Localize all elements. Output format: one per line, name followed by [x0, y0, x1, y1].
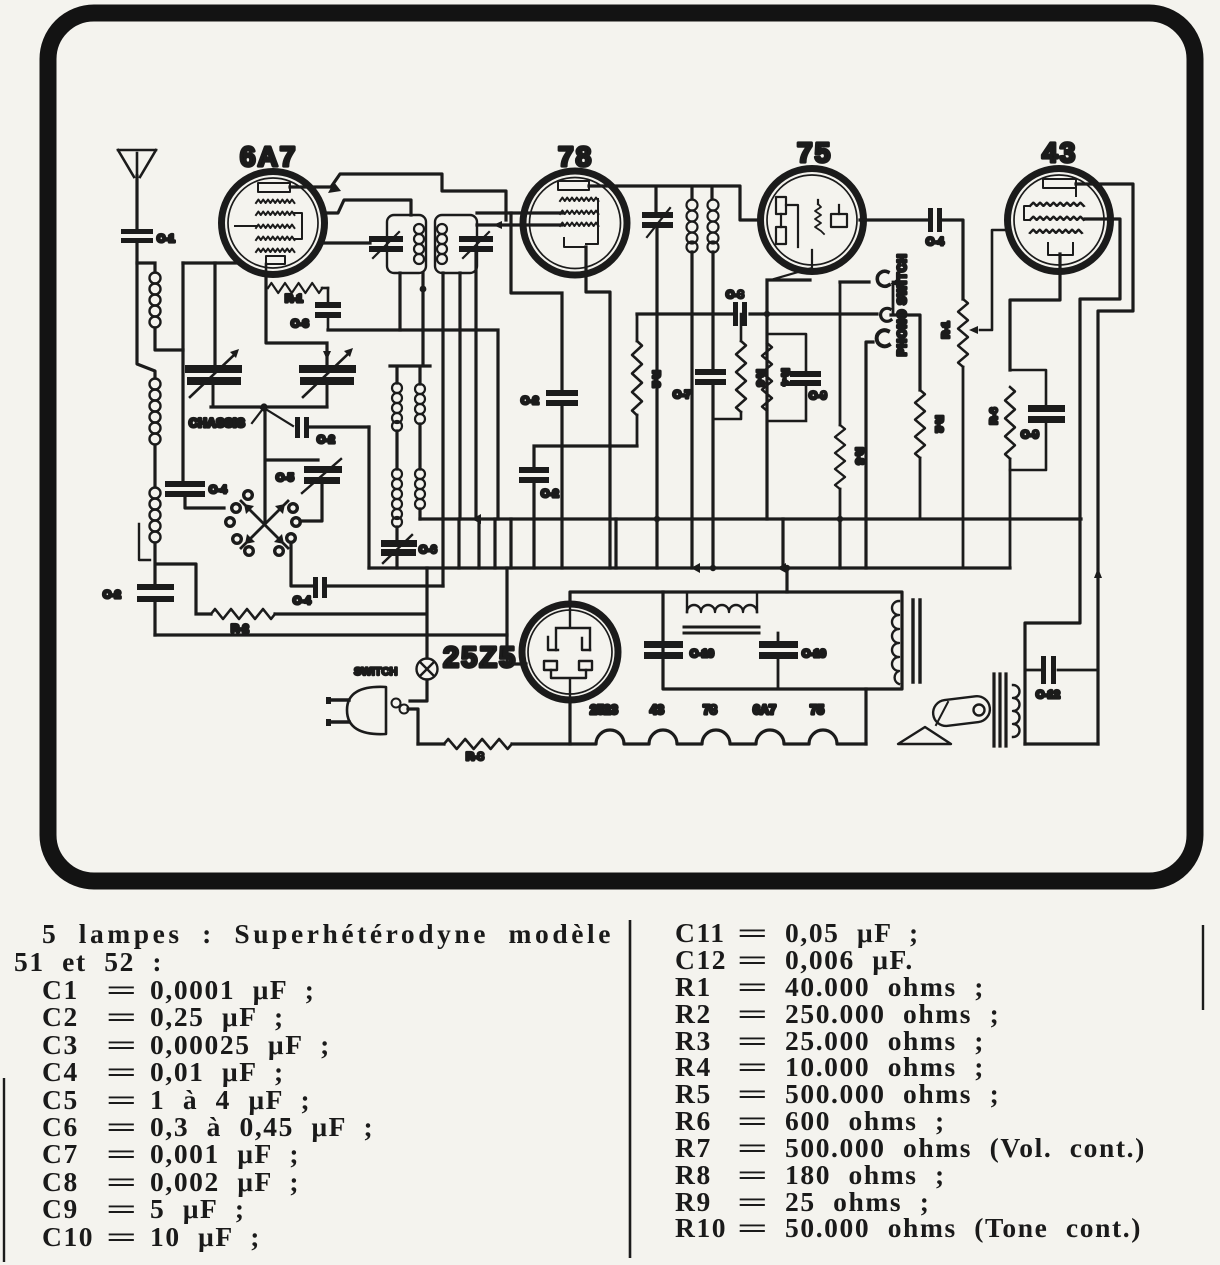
text right margin mark — [1202, 925, 1204, 1010]
variable capacitor IF1 secondary — [459, 232, 493, 258]
variable capacitor C6 — [381, 535, 437, 563]
wire 6A7 plate to IF1 — [290, 174, 506, 220]
wire IF2 secondary down through C7 — [711, 252, 714, 568]
wire 25Z5 plate top — [570, 592, 663, 605]
junction dot — [420, 286, 427, 293]
variable capacitor tuning gang 1 — [185, 349, 242, 407]
variable capacitor IF1 primary — [369, 232, 403, 258]
coil IF1 primary — [414, 224, 424, 264]
wire R2 to switch lamp — [275, 612, 426, 615]
svg-text:C-1: C-1 — [157, 233, 175, 245]
text left margin mark — [3, 1078, 5, 1262]
tube 25Z5 envelope — [522, 604, 618, 700]
capacitor C8 — [726, 289, 747, 326]
wire 6A7 g4 to IF1 primary cap — [320, 241, 370, 244]
capacitor C2 78 screen — [519, 467, 559, 500]
svg-text:2523: 2523 — [590, 703, 618, 717]
capacitor C4 coupling — [926, 208, 945, 248]
svg-text:C-7: C-7 — [673, 389, 691, 401]
wire 43 grid tap arrow — [969, 230, 1006, 334]
svg-text:25Z5: 25Z5 — [443, 642, 517, 674]
capacitor C4 padder — [293, 577, 327, 607]
svg-text:51 et 52 :: 51 et 52 : — [14, 946, 163, 977]
svg-text:75: 75 — [797, 137, 832, 168]
resistor R1 volume — [940, 299, 968, 568]
junction dots — [654, 311, 843, 571]
svg-text:R-6: R-6 — [988, 407, 1000, 424]
variable capacitor tuning gang 2 — [299, 348, 356, 407]
resistor R8 — [444, 739, 512, 749]
wire osc transformer top — [390, 273, 430, 384]
wire coil bottom to grid column — [155, 328, 183, 350]
svg-text:6A7: 6A7 — [240, 141, 297, 172]
tube 75 envelope — [761, 169, 864, 272]
svg-text:C-4: C-4 — [293, 595, 312, 607]
svg-text:SWITCH: SWITCH — [354, 666, 397, 678]
wire arrowhead osc grid — [323, 351, 331, 360]
wire contact3 down — [866, 342, 873, 568]
wire coil return tap — [139, 524, 150, 560]
wire 78 cathode down — [586, 247, 610, 446]
wire between osc coils — [397, 424, 420, 469]
wire C4 to R1 — [942, 220, 963, 299]
transformer speaker core — [994, 674, 1006, 746]
capacitor C2 78 cathode — [521, 390, 578, 407]
wire 43 plate to output — [1076, 184, 1133, 744]
wire 6A7 anode lead down — [266, 276, 327, 365]
wire filter box — [663, 592, 902, 689]
svg-text:R-2: R-2 — [650, 371, 662, 388]
capacitor C2 osc — [264, 408, 335, 446]
wire 43 cathode — [1010, 254, 1060, 370]
tube 6A7 internals — [235, 183, 302, 276]
wire C4 padder to bus — [327, 584, 443, 587]
tube 43 internals — [1024, 179, 1084, 255]
svg-text:43: 43 — [1042, 137, 1077, 168]
svg-text:C10=10 μF ;: C10=10 μF ; — [42, 1221, 261, 1252]
wire C5 to switch — [300, 484, 322, 521]
wire 6A7 signal grid to tuning cap — [213, 263, 216, 365]
wire rectifier branch — [507, 568, 526, 664]
wire heater string with humps — [512, 730, 866, 744]
wire IF2 primary down — [690, 252, 693, 519]
tube 75 internals — [774, 197, 847, 279]
coil IF2 primary — [687, 200, 698, 253]
wire 75 plate to C4 — [860, 218, 927, 221]
svg-text:C-2: C-2 — [541, 488, 559, 500]
wire C2 to bus — [560, 406, 563, 568]
resistor R5 — [835, 282, 865, 519]
svg-text:C-4: C-4 — [926, 236, 945, 248]
svg-text:C-8: C-8 — [726, 289, 744, 301]
svg-text:R-1: R-1 — [940, 321, 952, 338]
capacitor C7 — [673, 369, 726, 401]
svg-text:R-2: R-2 — [231, 623, 249, 635]
resistor R2 78 plate load — [632, 314, 662, 446]
resistor R1 6A7 — [268, 283, 322, 293]
svg-text:C-5: C-5 — [276, 472, 294, 484]
coil speaker secondary — [1013, 685, 1020, 737]
svg-text:CHASSIS: CHASSIS — [189, 416, 245, 430]
svg-text:R10=50.000 ohms (Tone cont.): R10=50.000 ohms (Tone cont.) — [675, 1212, 1142, 1243]
text column divider — [629, 920, 632, 1258]
capacitor C3 — [291, 288, 341, 330]
tube 78 internals — [558, 181, 598, 247]
svg-text:78: 78 — [703, 703, 717, 717]
coil L1 antenna secondary lower — [150, 488, 161, 543]
wire 43 screen down right — [1025, 219, 1120, 744]
svg-text:C-2: C-2 — [521, 395, 539, 407]
tube 25Z5 internals — [544, 606, 592, 700]
power plug — [326, 687, 409, 734]
capacitor C10 input — [644, 641, 714, 660]
svg-text:C2=0,25 μF ;: C2=0,25 μF ; — [42, 1001, 285, 1032]
wire 78 plate to IF2 — [589, 186, 760, 220]
svg-text:C-10: C-10 — [690, 648, 714, 660]
svg-text:C-2: C-2 — [317, 434, 335, 446]
wire field coil drop — [864, 689, 867, 744]
node CHASSIS — [189, 403, 268, 430]
speaker — [898, 695, 991, 744]
IF transformer 1 secondary box — [435, 215, 477, 273]
wire IF1 primary bottom — [398, 273, 401, 330]
wire 25Z5 cathode to heater — [568, 700, 571, 744]
wire phono link — [892, 282, 895, 313]
wire bus junction arrows — [472, 514, 786, 573]
resistor R2 detector — [915, 390, 945, 519]
svg-text:75: 75 — [810, 703, 824, 717]
wire chassis line — [211, 405, 327, 408]
wire osc box right edge — [441, 519, 444, 586]
choke filter — [684, 592, 759, 633]
wire bus stubs — [459, 446, 840, 568]
wire ground return bottom left — [155, 633, 507, 636]
svg-text:C-9: C-9 — [1021, 429, 1039, 441]
svg-text:C4=0,01 μF ;: C4=0,01 μF ; — [42, 1056, 285, 1087]
wire 78 suppressor down — [511, 213, 562, 390]
wire plug to heater line — [408, 709, 418, 744]
IF transformer 1 primary box — [387, 215, 426, 273]
wire contact2 to R2 det — [891, 315, 920, 390]
wire — [153, 543, 156, 635]
coil IF1 secondary — [437, 224, 447, 264]
svg-text:5 lampes : Superhétérodyne mod: 5 lampes : Superhétérodyne modèle — [42, 918, 612, 949]
svg-text:R-5: R-5 — [853, 448, 865, 465]
lamp switch — [354, 659, 438, 680]
wire bus B-minus — [420, 517, 1081, 520]
wire IF2 cap down to bus — [655, 228, 658, 568]
tube 6A7 envelope — [222, 172, 325, 275]
tube 78 envelope — [523, 171, 627, 275]
wire 6A7 top to IF1 secondary — [324, 200, 411, 215]
svg-text:C-6: C-6 — [419, 544, 437, 556]
coil L1 antenna secondary upper — [150, 379, 161, 445]
wire heater start — [418, 742, 444, 745]
wire bus ground — [369, 566, 1010, 569]
wire lower coil to C6 — [397, 509, 420, 568]
wire — [153, 445, 156, 487]
band switch rotary — [226, 491, 301, 556]
capacitor C1 — [121, 229, 175, 245]
wire C3 to osc transformer — [328, 328, 423, 331]
tube 43 envelope — [1008, 169, 1111, 272]
wire 6A7 grid lead — [183, 261, 240, 264]
phono switch contact 1 — [877, 271, 889, 286]
svg-text:78: 78 — [558, 141, 593, 172]
wire grid column — [181, 263, 184, 481]
wire osc box left edge — [367, 427, 370, 568]
svg-text:C-2: C-2 — [103, 589, 121, 601]
wire C2 osc pad line — [310, 425, 369, 428]
wire antenna down — [137, 243, 155, 378]
variable capacitor IF2 — [642, 208, 673, 237]
coil IF2 secondary — [708, 200, 719, 253]
antenna — [118, 150, 156, 229]
coil L1 antenna primary — [150, 273, 161, 328]
svg-text:R-2: R-2 — [933, 416, 945, 433]
wire C4 to switch — [185, 497, 224, 508]
oscillator coil upper pair — [392, 383, 425, 431]
capacitor C9 43 — [1010, 370, 1065, 470]
svg-text:C-4: C-4 — [209, 484, 228, 496]
wire lamp branch — [425, 568, 428, 658]
resistor R2 left — [211, 609, 275, 619]
svg-text:PHONO SWITCH: PHONO SWITCH — [897, 253, 909, 356]
wire lamp to plug — [410, 680, 427, 701]
svg-text:C-10: C-10 — [802, 648, 826, 660]
variable capacitor C5 — [276, 459, 342, 493]
wire arrowhead plate — [328, 182, 341, 193]
wire 78 cathode bus — [534, 446, 637, 568]
svg-text:R-8: R-8 — [466, 751, 484, 763]
capacitor C9 75 — [767, 334, 827, 421]
wire 75 cathode column — [767, 280, 810, 519]
phono switch contact 3 — [877, 330, 889, 346]
wire output stage bottom — [1025, 742, 1098, 745]
capacitor C10 output — [759, 633, 826, 689]
resistor R6 — [988, 387, 1015, 568]
wire IF1 secondary leads down — [443, 252, 476, 519]
wire coil top — [137, 263, 155, 272]
capacitor C2 antenna — [103, 584, 174, 602]
wire arrowhead grid — [493, 221, 502, 229]
svg-text:C-3: C-3 — [291, 318, 309, 330]
wire to R2 — [158, 564, 211, 614]
svg-text:C-12: C-12 — [1036, 689, 1060, 701]
svg-text:43: 43 — [650, 703, 664, 717]
wire hook line — [840, 280, 869, 283]
wire AVC line C8 — [637, 312, 877, 315]
capacitor C4 band switch — [165, 481, 228, 497]
svg-text:6A7: 6A7 — [753, 703, 776, 717]
wire bus to filter box — [785, 568, 788, 592]
svg-text:C-9: C-9 — [809, 390, 827, 402]
wire IF1 secondary to 78 grid — [477, 213, 563, 225]
wire switch to C4 line — [291, 543, 312, 586]
resistor R3 — [713, 314, 766, 419]
capacitor C12 — [1025, 656, 1098, 701]
resistor R4 — [762, 343, 791, 411]
svg-text:R-1: R-1 — [285, 293, 303, 305]
svg-text:R-4: R-4 — [779, 369, 791, 386]
wire arrowhead B line — [1094, 568, 1102, 578]
oscillator coil lower pair — [392, 469, 425, 527]
wire chassis to C5 — [265, 407, 318, 521]
phono switch contact 2 — [881, 308, 891, 321]
transformer output — [892, 600, 920, 684]
wire screen drop — [423, 330, 498, 519]
